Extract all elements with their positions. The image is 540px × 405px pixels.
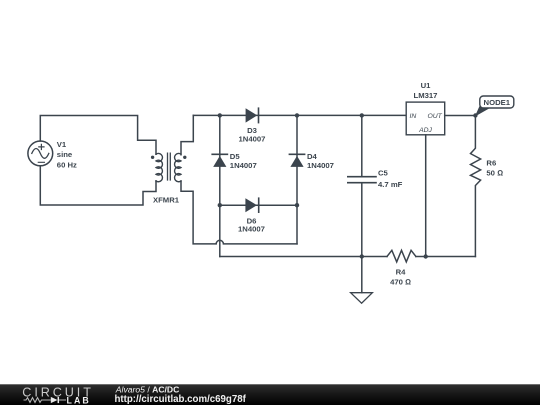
svg-text:LM317: LM317	[414, 91, 438, 100]
junction ADJ / bottom rail	[424, 254, 428, 258]
svg-text:V1: V1	[57, 140, 67, 149]
diode D6	[245, 198, 258, 212]
D3 label	[239, 126, 266, 143]
footer title text	[115, 385, 247, 405]
svg-text:IN: IN	[410, 113, 417, 120]
R6 label	[486, 159, 503, 178]
U1 label	[414, 81, 438, 100]
junction C5 top / rail	[360, 113, 364, 117]
wire secondary top staircase to top rail	[181, 115, 193, 154]
junction OUT / NODE1 / R6	[473, 113, 477, 117]
wire secondary bottom staircase with hop over left branch	[181, 181, 297, 244]
D6 label	[238, 216, 265, 233]
diode D4	[289, 154, 304, 167]
resistor R6	[471, 116, 481, 257]
footer bar	[0, 384, 540, 405]
D5 label	[230, 152, 257, 170]
svg-text:ADJ: ADJ	[418, 127, 432, 134]
junction D5 anode / D6 anode (DC-)	[218, 203, 222, 207]
ground	[351, 257, 373, 304]
svg-text:1N4007: 1N4007	[238, 225, 265, 234]
wire V1 bottom to primary loop	[40, 166, 156, 205]
svg-text:R6: R6	[486, 159, 496, 168]
wire top rail	[193, 114, 406, 116]
svg-text:sine: sine	[57, 150, 73, 159]
svg-text:50 Ω: 50 Ω	[486, 168, 503, 177]
CircuitLab logo	[22, 386, 93, 405]
svg-text:R4: R4	[396, 268, 407, 277]
svg-text:D4: D4	[307, 152, 318, 161]
node NODE1 flag	[475, 96, 514, 117]
svg-text:C5: C5	[378, 169, 389, 178]
wire V1 top to primary loop	[40, 116, 156, 155]
transformer XFMR1	[151, 153, 187, 182]
wire bridge left branch	[219, 115, 221, 256]
U1 pin labels	[410, 113, 443, 134]
junction D3 cathode / D4 cathode (DC+)	[295, 113, 299, 117]
svg-text:LAB: LAB	[67, 395, 91, 405]
wire ADJ pin down	[425, 135, 427, 257]
D4 label	[307, 152, 334, 170]
junction D6 cathode / D4 anode / secondary bottom	[295, 203, 299, 207]
svg-text:U1: U1	[421, 81, 432, 90]
capacitor C5	[348, 115, 376, 256]
svg-text:NODE1: NODE1	[484, 98, 511, 107]
svg-text:Alvaro5 / AC/DC: Alvaro5 / AC/DC	[115, 385, 180, 395]
svg-text:1N4007: 1N4007	[239, 135, 266, 144]
regulator U1 LM317	[406, 102, 445, 135]
svg-text:http://circuitlab.com/c69g78f: http://circuitlab.com/c69g78f	[115, 394, 247, 405]
C5 label	[378, 169, 403, 190]
svg-text:D5: D5	[230, 152, 241, 161]
svg-text:1N4007: 1N4007	[230, 161, 257, 170]
svg-text:XFMR1: XFMR1	[153, 195, 180, 204]
wire OUT pin to node	[445, 115, 476, 117]
svg-text:470 Ω: 470 Ω	[390, 277, 411, 286]
junction D3 anode / D5 cathode / secondary top	[218, 113, 222, 117]
voltage source V1	[28, 141, 53, 166]
wire bridge right branch	[296, 115, 298, 244]
wire D6 rail	[220, 204, 297, 206]
diode D5	[212, 154, 227, 167]
resistor R4	[387, 250, 416, 262]
svg-text:1N4007: 1N4007	[307, 161, 334, 170]
wire bottom rail	[220, 256, 476, 258]
svg-text:4.7 mF: 4.7 mF	[378, 180, 403, 189]
V1 label	[57, 140, 77, 169]
diode D3	[246, 108, 259, 122]
svg-text:OUT: OUT	[427, 113, 442, 120]
junction C5 bottom / ground / bottom rail	[360, 254, 364, 258]
R4 label	[390, 268, 411, 287]
svg-text:60 Hz: 60 Hz	[57, 160, 77, 169]
